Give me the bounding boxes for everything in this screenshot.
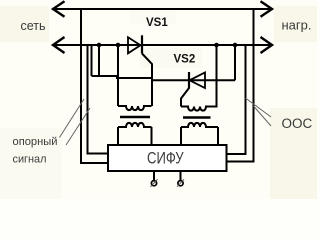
terminal 2 circle [178, 181, 183, 186]
node B on L2 [116, 43, 121, 48]
svg-text:VS2: VS2 [174, 54, 196, 66]
wire: T1 secondary left lead to SIFU [117, 127, 119, 145]
svg-text:ООС: ООС [282, 116, 313, 131]
wire: node D down to branch right end [234, 45, 236, 80]
leader line to sync wire 1 [60, 99, 85, 138]
node C on L2 [214, 43, 219, 48]
arrow right end of L1 [261, 1, 273, 17]
thyristor VS2 cathode bar [188, 72, 190, 89]
terminal 1 circle [151, 181, 156, 186]
arrow right end of L2 [261, 37, 273, 53]
terminal 2 stem [180, 171, 182, 181]
terminal 1 tick [151, 179, 158, 187]
svg-text:опорный: опорный [13, 136, 58, 148]
transformer T2 core [183, 116, 211, 119]
wire: VS2 gate lead to T2 [181, 88, 189, 107]
wire: top bus line L1 [53, 8, 272, 10]
wire: feedback from L2 down right side into SIFU upper-right [227, 45, 246, 154]
arrow left end of L2 [53, 37, 65, 53]
wire: second bus line L2 [53, 44, 272, 46]
transformer T1 core [120, 116, 150, 119]
svg-text:нагр.: нагр. [282, 18, 312, 33]
thyristor VS2 triangle [190, 73, 206, 89]
svg-text:СИФУ: СИФУ [147, 150, 184, 168]
transformer T2 primary winding [181, 107, 213, 111]
transformer T1 primary winding [118, 106, 152, 110]
wire: node C down to T2 primary right [212, 45, 217, 107]
svg-text:сеть: сеть [21, 19, 46, 33]
thyristor VS1 cathode bar [141, 35, 143, 53]
leader line from feedback wire 1 [246, 98, 272, 117]
wire: sync from L2 down left side to SIFU upper-left input [88, 45, 109, 154]
wire: sync from L1 down left side to SIFU lower-left input [81, 9, 108, 163]
wire: VS2 branch horizontal [92, 76, 236, 80]
transformer T1 secondary winding [118, 123, 152, 127]
wire: short drop from L2 to VS2 branch left end [91, 45, 93, 76]
leader line from feedback wire 2 [254, 106, 272, 126]
svg-text:VS1: VS1 [146, 17, 168, 29]
wire: T2 secondary right lead to SIFU [217, 127, 219, 145]
wire: feedback from L1 down right side into SIFU lower-right [227, 9, 254, 162]
leader line to sync wire 2 [66, 108, 90, 145]
wire: VS1 gate lead to T1 [142, 54, 152, 107]
wire: node A down to branch [98, 45, 100, 76]
wire: T2 secondary left lead to SIFU [180, 127, 182, 145]
transformer T2 secondary winding [181, 123, 218, 127]
terminal 2 tick [177, 179, 184, 187]
block U1 SIFU control unit [108, 145, 227, 171]
arrow left end of L1 [53, 1, 65, 17]
svg-text:сигнал: сигнал [13, 154, 47, 166]
wire: node B down to T1 primary left [117, 45, 119, 106]
node D on L2 [233, 43, 238, 48]
thyristor VS1 triangle [128, 37, 141, 53]
terminal 1 stem [153, 171, 155, 181]
node A on L2 [97, 43, 102, 48]
wire: T1 secondary right lead to SIFU [151, 127, 153, 145]
